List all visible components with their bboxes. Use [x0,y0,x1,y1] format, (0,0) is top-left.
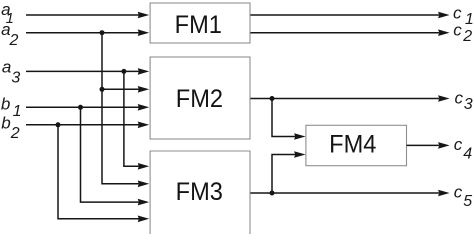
svg-text:b: b [1,95,10,114]
svg-text:FM3: FM3 [176,178,223,206]
svg-text:FM2: FM2 [176,85,223,113]
svg-text:1: 1 [13,103,22,120]
svg-text:c: c [454,182,463,201]
svg-text:c: c [453,20,462,39]
svg-text:c: c [455,88,464,107]
svg-text:1: 1 [465,11,474,28]
svg-text:2: 2 [10,125,20,142]
svg-text:c: c [454,135,463,154]
svg-text:FM1: FM1 [175,11,222,39]
svg-text:3: 3 [11,70,20,87]
svg-text:2: 2 [9,32,19,49]
svg-text:b: b [1,114,10,133]
svg-text:5: 5 [463,193,472,210]
svg-text:2: 2 [462,28,472,45]
svg-text:FM4: FM4 [329,131,376,159]
svg-text:4: 4 [463,145,472,162]
svg-text:3: 3 [464,96,473,113]
svg-text:a: a [2,58,11,77]
